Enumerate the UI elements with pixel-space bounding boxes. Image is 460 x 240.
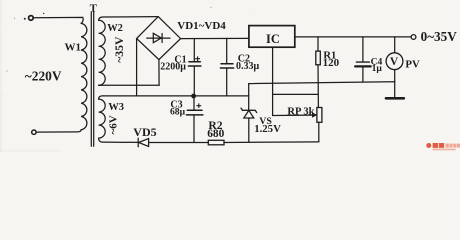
svg-text:680: 680	[207, 128, 224, 140]
svg-text:VD5: VD5	[133, 125, 156, 139]
svg-text:1μ: 1μ	[372, 63, 383, 74]
svg-text:68μ: 68μ	[170, 107, 186, 118]
svg-text:T: T	[90, 3, 98, 15]
svg-text:2200μ: 2200μ	[160, 61, 186, 72]
svg-text:~220V: ~220V	[25, 68, 62, 83]
svg-text:W1: W1	[65, 42, 82, 54]
svg-text:RP 3k: RP 3k	[287, 107, 314, 118]
svg-text:~35V: ~35V	[113, 36, 126, 63]
svg-text:120: 120	[323, 57, 340, 69]
svg-text:V: V	[390, 56, 399, 68]
svg-text:PV: PV	[405, 58, 420, 70]
svg-text:W2: W2	[107, 23, 123, 34]
svg-text:IC: IC	[266, 32, 280, 46]
svg-text:~6V: ~6V	[108, 115, 120, 134]
svg-text:0.33μ: 0.33μ	[236, 61, 260, 72]
svg-text:W3: W3	[108, 102, 124, 113]
svg-text:VD1~VD4: VD1~VD4	[177, 20, 226, 32]
svg-text:1.25V: 1.25V	[254, 123, 281, 135]
svg-text:0~35V: 0~35V	[421, 29, 458, 44]
